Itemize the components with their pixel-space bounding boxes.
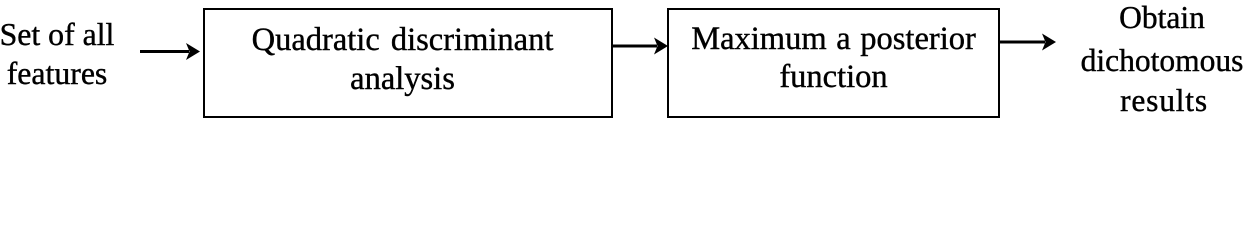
node: obtain dichotomous results, line 1 bbox=[1074, 0, 1250, 36]
label: quadratic discriminant analysis bbox=[199, 21, 606, 99]
node: obtain dichotomous results, line 3 bbox=[1076, 83, 1250, 119]
arrow: QDA to MAP bbox=[611, 38, 668, 55]
box: maximum a posterior function bbox=[667, 8, 1000, 118]
box: quadratic discriminant analysis bbox=[203, 8, 613, 118]
node: set of all features bbox=[0, 15, 115, 93]
arrow: features to QDA bbox=[140, 43, 200, 60]
label: maximum a posterior function bbox=[668, 20, 999, 96]
node: obtain dichotomous results, line 2 bbox=[1074, 43, 1250, 79]
arrow: MAP to results bbox=[999, 34, 1056, 51]
